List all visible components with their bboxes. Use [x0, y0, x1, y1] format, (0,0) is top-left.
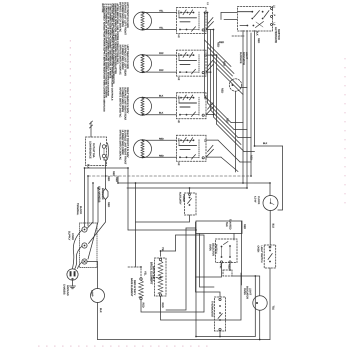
svg-text:SWITCH: SWITCH: [215, 244, 218, 254]
wire: [127, 168, 129, 230]
svg-text:BLOCK: BLOCK: [79, 206, 82, 215]
svg-text:LEFT REAR 8 IN 240V: LEFT REAR 8 IN 240V: [126, 45, 129, 70]
svg-text:3400 W 240 V: 3400 W 240 V: [152, 266, 155, 282]
svg-text:BREAKER: BREAKER: [101, 188, 104, 200]
wire: [269, 183, 271, 196]
wire: [233, 234, 235, 241]
svg-text:BAKE ELEMENT: BAKE ELEMENT: [130, 278, 133, 297]
wire: [259, 310, 261, 339]
clock: [254, 196, 278, 211]
wire: [232, 276, 260, 296]
svg-text:OVEN: OVEN: [243, 288, 246, 295]
svg-text:RIGHT FRONT 8 IN 240V: RIGHT FRONT 8 IN 240V: [126, 130, 129, 158]
wire: [176, 235, 205, 312]
infinite switch RIGHT REAR: [177, 93, 207, 124]
wire: [143, 29, 177, 31]
wire: [161, 273, 242, 320]
wire to clock: [118, 182, 270, 184]
supply cord: [68, 230, 82, 269]
wire: [241, 221, 243, 285]
wire: [229, 264, 231, 270]
svg-text:RED: RED: [115, 177, 118, 182]
svg-text:RED: RED: [221, 88, 224, 93]
bus wire BLK: [254, 31, 256, 147]
svg-text:BLK: BLK: [159, 95, 164, 98]
svg-text:THERMOSTAT: THERMOSTAT: [211, 301, 214, 318]
infinite switch LEFT REAR: [177, 50, 207, 81]
wire: [128, 229, 196, 231]
svg-text:AFTER SERVICING. USE COPPER CO: AFTER SERVICING. USE COPPER CONDUCTORS O…: [116, 4, 119, 65]
selector switch: [196, 219, 246, 269]
chassis ground: [63, 280, 76, 296]
svg-text:BLK: BLK: [99, 308, 102, 313]
wire right trunk to clock: [278, 146, 283, 210]
svg-text:TERMINAL: TERMINAL: [76, 203, 79, 216]
svg-text:INDICATOR: INDICATOR: [246, 286, 249, 299]
broil element: [149, 247, 166, 308]
surface indicator light: [229, 52, 248, 172]
svg-text:YEL: YEL: [159, 27, 164, 30]
svg-text:LIGHT: LIGHT: [248, 288, 251, 296]
svg-text:RED: RED: [107, 202, 110, 207]
svg-text:SURFACE: SURFACE: [239, 52, 242, 64]
wire: [89, 200, 106, 244]
svg-text:RED: RED: [243, 224, 246, 229]
lamp: [91, 289, 105, 303]
svg-text:RED: RED: [141, 303, 144, 308]
svg-text:CONVENIENCE: CONVENIENCE: [89, 141, 92, 159]
wire: [143, 156, 177, 158]
svg-text:4.0 W: 4.0 W: [254, 196, 257, 203]
svg-text:RED: RED: [161, 303, 164, 308]
svg-text:RED: RED: [223, 61, 226, 66]
thermostat: [211, 297, 226, 331]
infinite switch LEFT FRONT: [177, 8, 207, 39]
wire: [84, 168, 86, 227]
svg-text:TAN: TAN: [225, 222, 228, 227]
svg-text:LIGHT SWITCH: LIGHT SWITCH: [260, 246, 263, 263]
wire: [152, 278, 161, 284]
wire: [135, 183, 137, 267]
wire: [143, 139, 177, 141]
infinite switch RIGHT FRONT: [177, 135, 207, 166]
wire: [143, 114, 177, 116]
wire fuse feed: [105, 160, 107, 189]
wire: [136, 215, 190, 222]
svg-text:BLK: BLK: [263, 142, 268, 145]
surface element RIGHT REAR: [119, 87, 152, 120]
wire: [219, 331, 221, 337]
svg-text:OVEN: OVEN: [257, 246, 260, 253]
wire: [141, 300, 204, 312]
wire: [87, 262, 98, 289]
svg-text:BLK: BLK: [86, 164, 89, 169]
svg-text:T-STAT: T-STAT: [182, 194, 185, 202]
svg-text:CLOCK: CLOCK: [257, 196, 260, 205]
svg-text:SUPPLY: SUPPLY: [68, 231, 71, 241]
svg-text:RED: RED: [227, 264, 230, 269]
notice text block: [101, 4, 119, 112]
svg-text:RED: RED: [257, 38, 260, 43]
surface element LEFT FRONT: [119, 2, 152, 35]
wire: [143, 97, 177, 99]
wire: [87, 183, 93, 229]
wire: [143, 54, 177, 56]
auxiliary t-stat: [179, 192, 196, 215]
svg-text:RED: RED: [107, 176, 110, 181]
wire: [189, 188, 191, 193]
wire: [196, 263, 222, 277]
svg-text:PRP: PRP: [159, 52, 164, 55]
surface element RIGHT FRONT: [119, 130, 152, 165]
svg-text:RED: RED: [217, 42, 220, 47]
svg-text:TS1: TS1: [272, 306, 275, 311]
svg-text:RIGHT REAR 8 IN 240V: RIGHT REAR 8 IN 240V: [126, 87, 129, 113]
wire: [186, 227, 196, 229]
wire: [166, 228, 186, 310]
wire: [90, 122, 92, 137]
svg-text:YEL: YEL: [161, 247, 164, 252]
wire: [254, 276, 256, 337]
svg-text:RED: RED: [159, 137, 164, 140]
wire: [200, 234, 215, 288]
svg-text:AUXILIARY: AUXILIARY: [179, 192, 182, 205]
alternate surface switch: [238, 5, 281, 43]
wire: [85, 167, 129, 169]
svg-text:RED: RED: [159, 154, 164, 157]
svg-text:LAMP: LAMP: [91, 290, 94, 297]
svg-text:BLK: BLK: [272, 224, 275, 229]
svg-text:OVEN: OVEN: [208, 244, 211, 251]
wire: [87, 176, 89, 226]
oven light switch: [257, 245, 276, 268]
bus wire L2: [242, 31, 244, 184]
svg-text:RED: RED: [112, 171, 115, 176]
wire: [97, 303, 99, 340]
wire ladder right of switches: [205, 13, 222, 158]
wire: [98, 339, 271, 341]
svg-text:SELECTOR: SELECTOR: [212, 243, 215, 256]
supply plug: [67, 269, 78, 280]
wire BLK to right: [255, 145, 283, 147]
svg-text:LEFT FRONT 8 IN 240V: LEFT FRONT 8 IN 240V: [126, 2, 129, 28]
terminal block: [76, 203, 97, 268]
svg-text:BLK: BLK: [159, 112, 164, 115]
svg-text:2600 W 240 V: 2600 W 240 V: [133, 280, 136, 296]
svg-text:YEL: YEL: [159, 10, 164, 13]
oven receptacle: [86, 137, 109, 166]
bus wire: [250, 33, 252, 176]
wire: [161, 251, 176, 256]
junction box: [223, 270, 232, 276]
svg-text:BLK: BLK: [256, 31, 259, 36]
wire: [143, 12, 177, 14]
oven indicator light: [243, 286, 275, 311]
wire: [232, 35, 244, 37]
svg-text:RED: RED: [226, 118, 229, 123]
15A harness breaker: [98, 176, 110, 207]
wire: [269, 268, 271, 340]
svg-text:OUTLET 15A: OUTLET 15A: [92, 143, 95, 158]
wire: [269, 210, 271, 245]
wire: [103, 158, 105, 160]
wire: [195, 234, 197, 337]
bus wire: [246, 31, 248, 189]
wire: [88, 188, 98, 259]
svg-text:GROUND: GROUND: [66, 285, 69, 296]
wire: [127, 187, 247, 189]
svg-text:SWITCH: SWITCH: [277, 29, 281, 40]
chassis dash line: [88, 175, 251, 177]
svg-text:CORD: CORD: [71, 233, 74, 240]
svg-text:YEL: YEL: [144, 271, 147, 276]
svg-text:PRP: PRP: [159, 69, 164, 72]
bake element: [130, 271, 147, 308]
wire: [196, 222, 221, 297]
wire: [196, 336, 255, 338]
diagonal wires to pilot light and bus: [205, 13, 255, 172]
wire: [117, 176, 119, 183]
wire: [143, 71, 177, 73]
svg-text:CHASSIS: CHASSIS: [63, 284, 66, 295]
wire: [128, 267, 141, 278]
surface element LEFT REAR: [119, 45, 152, 77]
